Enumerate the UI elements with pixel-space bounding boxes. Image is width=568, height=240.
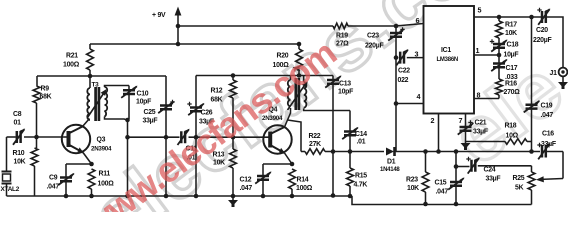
wire C25 to ground <box>164 137 169 198</box>
svg-text:270Ω: 270Ω <box>504 89 521 96</box>
C18 label <box>504 42 519 59</box>
svg-text:R12: R12 <box>211 88 223 95</box>
svg-text:2N3904: 2N3904 <box>91 146 112 153</box>
R17 label <box>505 22 517 38</box>
wire Q4 collector <box>285 108 291 127</box>
svg-text:C19: C19 <box>541 103 553 110</box>
svg-text:220µF: 220µF <box>365 43 383 50</box>
svg-text:33µF: 33µF <box>143 118 158 125</box>
ground symbol stage-2 <box>228 197 238 208</box>
svg-text:R9: R9 <box>41 86 50 93</box>
jack J1 <box>559 68 568 79</box>
secondary 9V rail <box>90 43 299 45</box>
resistor R18 <box>466 139 532 145</box>
wire R20 junction <box>298 44 300 49</box>
node base junction <box>34 135 39 140</box>
svg-text:.047: .047 <box>436 189 449 196</box>
node +9V junction dots <box>176 24 181 47</box>
C24 label <box>484 167 501 183</box>
capacitor C15 <box>448 149 464 206</box>
capacitor C19 <box>524 17 540 154</box>
node pin4 junction <box>394 101 399 106</box>
svg-text:LM386N: LM386N <box>437 57 459 63</box>
stage-1 rail <box>37 74 166 79</box>
wire T4 secondary top <box>303 76 305 83</box>
C17 label <box>505 65 518 81</box>
C9 label <box>47 175 60 191</box>
D1 label <box>380 159 400 174</box>
svg-text:10K: 10K <box>213 160 225 167</box>
svg-text:C21: C21 <box>475 120 487 127</box>
svg-text:C12: C12 <box>240 177 252 184</box>
svg-text:4: 4 <box>417 92 421 101</box>
crystal XTAL2 <box>2 172 12 197</box>
svg-text:10pF: 10pF <box>136 99 151 106</box>
node pin3 junction <box>394 55 399 60</box>
C22 label <box>398 68 411 85</box>
svg-text:33µF: 33µF <box>541 141 556 148</box>
resistor R10 <box>31 137 38 196</box>
R18 label <box>505 123 519 140</box>
resistor R11 <box>88 169 95 196</box>
svg-text:C10: C10 <box>137 91 149 98</box>
svg-text:D1: D1 <box>387 159 396 166</box>
R14 label <box>296 177 313 193</box>
pin 7 wire <box>459 114 466 127</box>
resistor R21 <box>87 44 94 76</box>
capacitor C24 <box>456 157 532 174</box>
svg-text:01: 01 <box>14 120 22 127</box>
svg-text:R10: R10 <box>13 150 25 157</box>
C10 label <box>136 91 151 106</box>
R13 label <box>213 152 226 167</box>
diode D1 <box>386 147 540 156</box>
C19 label <box>541 103 554 120</box>
C20 label <box>533 27 551 44</box>
capacitor C13 <box>325 75 341 197</box>
capacitor C12 <box>255 164 271 198</box>
svg-text:C16: C16 <box>542 131 554 138</box>
svg-text:2: 2 <box>431 116 435 125</box>
svg-text:.047: .047 <box>541 112 554 119</box>
capacitor C26 <box>187 76 204 140</box>
svg-text:33µF: 33µF <box>486 176 501 183</box>
svg-text:5K: 5K <box>515 185 524 192</box>
capacitor C17 <box>491 55 507 72</box>
svg-text:8: 8 <box>477 91 481 100</box>
capacitor C11 <box>178 129 190 145</box>
T4 label <box>293 67 301 74</box>
C14 label <box>355 131 367 146</box>
svg-text:C23: C23 <box>367 33 379 40</box>
svg-text:R16: R16 <box>505 81 517 88</box>
R21 label <box>63 53 80 69</box>
svg-text:C22: C22 <box>398 68 410 75</box>
C23 label <box>365 33 383 50</box>
svg-text:C20: C20 <box>536 27 548 34</box>
svg-text:C18: C18 <box>507 42 519 49</box>
pin 3 wire <box>396 50 424 59</box>
capacitor C22 <box>396 49 408 65</box>
XTAL2 label <box>1 186 20 193</box>
op-amp IC1 LM386N <box>424 6 475 114</box>
svg-text:R19: R19 <box>336 33 348 40</box>
J1 label <box>550 70 558 77</box>
watermark red text <box>76 32 344 240</box>
svg-text:C15: C15 <box>435 180 447 187</box>
resistor R17 <box>496 15 503 43</box>
wire C26 to ground <box>194 137 199 198</box>
svg-text:C13: C13 <box>339 81 351 88</box>
transformer T3 <box>87 76 107 121</box>
Q4 label <box>262 107 283 123</box>
C11 label <box>186 146 198 162</box>
wire T3 secondary bottom <box>105 117 128 121</box>
R20 label <box>273 53 290 70</box>
C25 label <box>143 109 158 125</box>
svg-text:68K: 68K <box>211 97 223 104</box>
ground symbol C21 <box>461 140 471 151</box>
wire base node Q3 <box>7 136 65 138</box>
svg-text:27K: 27K <box>309 141 321 148</box>
resistor R22 <box>301 149 333 155</box>
svg-text:022: 022 <box>398 77 409 84</box>
svg-text:100Ω: 100Ω <box>296 185 313 192</box>
pin 4 wire <box>396 92 424 104</box>
Q3 label <box>91 137 112 153</box>
R19 value label <box>336 33 349 48</box>
R12 label <box>211 88 223 104</box>
svg-text:R25: R25 <box>513 175 525 182</box>
pin 5 wire <box>474 6 541 18</box>
svg-text:100Ω: 100Ω <box>63 62 80 69</box>
svg-text:IC1: IC1 <box>441 47 451 54</box>
svg-text:7: 7 <box>459 116 463 125</box>
pin 6 wire <box>416 16 420 25</box>
svg-text:R11: R11 <box>99 171 111 178</box>
R15 label <box>354 173 368 189</box>
resistor R15 <box>347 152 354 199</box>
svg-text:1: 1 <box>476 46 480 55</box>
R23 label <box>406 177 419 193</box>
wire T3 secondary top <box>105 86 130 88</box>
R9 label <box>40 86 52 101</box>
svg-text:R14: R14 <box>297 177 309 184</box>
svg-text:33µF: 33µF <box>473 129 488 136</box>
svg-text:.047: .047 <box>47 184 60 191</box>
svg-text:10K: 10K <box>407 185 419 192</box>
wire detector node <box>333 149 384 154</box>
svg-text:C14: C14 <box>355 131 367 138</box>
svg-text:R22: R22 <box>309 133 321 140</box>
resistor R23 <box>422 149 429 206</box>
wire signal <box>128 136 271 138</box>
svg-text:+ 9V: + 9V <box>152 12 166 19</box>
capacitor C16 <box>537 143 563 160</box>
resistor R20 <box>296 42 303 76</box>
wire Q3 collector <box>83 119 90 127</box>
svg-text:10pF: 10pF <box>338 89 353 96</box>
resistor R19 <box>333 23 348 29</box>
svg-text:4.7K: 4.7K <box>354 182 368 189</box>
wire to J1 <box>546 17 563 68</box>
R11 label <box>98 171 115 188</box>
capacitor C21 <box>458 120 474 139</box>
C26 label <box>199 110 214 126</box>
svg-text:XTAL2: XTAL2 <box>1 186 20 193</box>
transistor Q4 <box>263 125 291 153</box>
capacitor C20 <box>529 8 550 25</box>
ground rail <box>7 196 532 205</box>
pin 1 wire <box>474 46 499 55</box>
potentiometer R25 <box>528 152 563 205</box>
capacitor C10 <box>121 86 137 123</box>
resistor R13 <box>230 137 237 198</box>
svg-text:3: 3 <box>415 50 419 59</box>
R10 label <box>13 150 26 166</box>
svg-text:C25: C25 <box>144 109 156 116</box>
svg-text:220µF: 220µF <box>533 37 551 44</box>
svg-text:.047: .047 <box>240 185 253 192</box>
C16 label <box>541 131 556 149</box>
stage-2 rail <box>196 75 333 77</box>
+9V rail <box>178 24 424 27</box>
R25 label <box>513 175 525 192</box>
resistor R16 <box>496 72 503 99</box>
svg-text:T3: T3 <box>92 82 100 89</box>
svg-text:J1: J1 <box>550 70 558 77</box>
wire node-A vertical <box>125 120 130 198</box>
pin 8 wire <box>474 91 499 100</box>
resistor R9 <box>33 76 40 137</box>
svg-text:C17: C17 <box>506 65 518 72</box>
ground rail junction dots <box>64 194 94 199</box>
C13 label <box>338 81 353 96</box>
resistor R12 <box>230 73 237 139</box>
+9V supply arrow <box>175 7 182 45</box>
capacitor C14 <box>342 111 358 152</box>
+9V supply label <box>152 12 166 19</box>
wire Q4 emitter <box>263 153 294 166</box>
svg-text:C8: C8 <box>13 111 22 118</box>
wire R22 branch <box>288 120 302 152</box>
svg-text:10Ω: 10Ω <box>506 133 519 140</box>
C12 label <box>240 177 253 193</box>
svg-text:R15: R15 <box>355 173 367 180</box>
svg-text:68K: 68K <box>40 94 52 101</box>
svg-text:1N4148: 1N4148 <box>380 167 400 173</box>
svg-text:Q3: Q3 <box>97 137 106 144</box>
ground symbol J1 <box>558 79 568 90</box>
C8 label <box>13 111 22 127</box>
pin 2 wire <box>431 114 441 154</box>
svg-text:C24: C24 <box>484 167 496 174</box>
C15 label <box>435 180 449 196</box>
svg-text:10K: 10K <box>14 159 26 166</box>
T3 label <box>92 82 100 89</box>
wire Q3 emitter <box>66 153 94 167</box>
R22 label <box>309 133 322 148</box>
svg-text:R23: R23 <box>406 177 418 184</box>
svg-text:.01: .01 <box>357 139 366 146</box>
svg-text:R21: R21 <box>66 53 78 60</box>
svg-text:R17: R17 <box>505 22 517 29</box>
wire T4 secondary bottom <box>304 109 350 111</box>
wire crystal <box>6 137 8 171</box>
transistor Q3 <box>62 125 90 153</box>
capacitor C18 <box>490 39 508 57</box>
svg-text:10K: 10K <box>505 30 517 37</box>
svg-text:5: 5 <box>478 6 482 15</box>
svg-text:R18: R18 <box>505 123 517 130</box>
capacitor C8 <box>13 128 25 144</box>
svg-text:27Ω: 27Ω <box>336 41 349 48</box>
transformer T4 <box>288 73 308 110</box>
svg-text:10µF: 10µF <box>504 52 519 59</box>
resistor R14 <box>289 169 296 198</box>
capacitor C9 <box>58 164 74 196</box>
svg-text:6: 6 <box>416 16 420 25</box>
svg-text:C9: C9 <box>49 175 58 182</box>
R16 label <box>504 81 521 97</box>
capacitor C23 <box>388 24 405 152</box>
C21 label <box>473 120 488 136</box>
capacitor C25 <box>158 76 175 140</box>
